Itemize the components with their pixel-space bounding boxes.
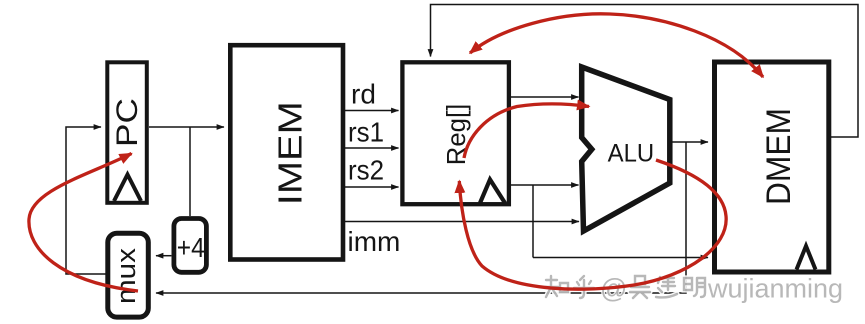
svg-text:DMEM: DMEM — [760, 108, 798, 205]
svg-text:ALU: ALU — [608, 140, 655, 168]
svg-text:rd: rd — [351, 79, 376, 110]
data memory DMEM — [715, 62, 829, 272]
PC clock triangle — [114, 175, 141, 202]
register PC — [107, 62, 147, 203]
Reg clock triangle — [480, 180, 505, 204]
wire rs2-data to DMEM — [533, 257, 708, 259]
svg-text:IMEM: IMEM — [272, 101, 309, 205]
svg-text:imm: imm — [348, 226, 401, 257]
instruction memory IMEM — [230, 45, 343, 259]
svg-text:Reg[]: Reg[] — [441, 104, 471, 166]
wire ALU result return to mux — [156, 142, 686, 293]
wire +4 output to mux — [156, 255, 171, 257]
adder +4 — [174, 219, 207, 273]
red double arrow Reg and DMEM — [470, 14, 763, 77]
wire Reg data1 to ALU — [511, 96, 579, 98]
wire DMEM output writeback loop to Reg — [431, 5, 859, 138]
red arrow mux to PC — [29, 154, 138, 292]
DMEM clock triangle — [797, 246, 816, 270]
red arrow Reg to ALU input — [464, 104, 589, 158]
red arrow ALU around to Reg write — [459, 160, 726, 289]
ALU — [582, 67, 670, 231]
svg-text:rs2: rs2 — [348, 155, 384, 186]
wire IMEM rs2 to Reg — [345, 186, 399, 188]
svg-text:PC: PC — [111, 98, 144, 147]
wire IMEM rd to Reg — [345, 110, 399, 112]
watermark 知乎 @吴建明wujianming — [545, 274, 843, 304]
svg-text:rs1: rs1 — [348, 117, 384, 148]
wire IMEM imm to ALU — [345, 221, 579, 223]
wire mux output to PC input — [66, 127, 106, 274]
svg-text:+4: +4 — [177, 232, 205, 263]
mux M1 — [108, 233, 149, 317]
svg-text:wujianming: wujianming — [707, 274, 843, 304]
wire junction rs2-data down — [532, 185, 534, 258]
svg-text:mux: mux — [111, 247, 141, 304]
wire junction down to +4 — [189, 127, 191, 216]
wire IMEM rs1 to Reg — [345, 147, 399, 149]
wire ALU output to DMEM — [672, 141, 708, 143]
wire Reg data2 to ALU — [511, 184, 579, 186]
register file Reg[] — [402, 62, 509, 204]
wire PC output to IMEM input — [149, 126, 224, 128]
